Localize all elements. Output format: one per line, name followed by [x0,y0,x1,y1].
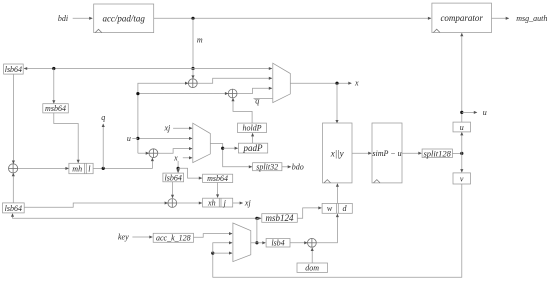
block dom [297,263,328,273]
svg-text:v: v [460,174,464,183]
block mh||l [69,163,93,173]
block v [453,173,471,184]
svg-text:acc_k_128: acc_k_128 [156,234,191,243]
wire acc_k_128 output to mux M3 input 1 [194,234,233,238]
wire msb64 down to xh||j [217,183,219,198]
svg-text:x: x [173,153,178,162]
wire mux M3 output [251,242,257,244]
node m distribution junction [191,67,194,70]
wire u box up to comparator [461,33,463,122]
block msb124 [262,213,298,223]
xor X2 [228,89,237,98]
wire xor X5 output to mh||l [18,167,69,169]
xor X6 [308,238,317,247]
svg-text:simP − u: simP − u [372,149,401,158]
node junction feedback [211,252,214,255]
register acc/pad/tag [94,4,154,33]
xor X4 [168,199,177,208]
wire xor X3 output to mux M2 input 3 [158,149,192,154]
xor X5 [9,164,18,173]
svg-text:u: u [483,108,487,117]
wire m to mux M1 input 1 [193,68,272,70]
svg-text:split32: split32 [256,163,278,172]
svg-text:x: x [354,79,359,88]
register comparator [432,3,492,32]
wire xj stub into mux M2 input 1 [173,127,192,129]
svg-text:msb64: msb64 [45,104,66,113]
wire bdi input arrow [73,17,93,19]
block u [453,122,471,132]
svg-text:u: u [460,123,464,132]
svg-text:xh: xh [207,199,216,208]
wire feedback rail to lsb64 bottom [13,214,257,219]
block lsb4 [266,239,290,248]
wire msb124 output to w||d [297,208,321,218]
wire m to lsb64 (left) [24,68,193,70]
svg-text:u: u [127,134,131,143]
svg-text:w: w [327,204,333,213]
svg-text:xj: xj [164,124,172,133]
wire up into u box [461,132,463,153]
svg-text:bdo: bdo [292,162,304,171]
svg-text:lsb64: lsb64 [5,65,22,74]
wire split128 output to u/v column [452,152,461,154]
wire holdP output to xor X2 bottom [233,98,252,123]
wire msb64 output to mh||l top [54,113,78,163]
wire mux M2 output to padP and split32 [210,144,252,167]
wire into padP [223,147,238,149]
wire msg_auth output arrow [492,17,509,19]
wire x down into register x||y [336,83,338,123]
wire xor X6 output up to w||d bottom [316,214,337,243]
svg-text:x||y: x||y [330,148,344,158]
svg-text:mh: mh [72,164,82,173]
wire xor X4 output to xh||j [177,202,202,204]
wire xor X2 output to mux M1 input 3 [237,88,272,93]
svg-text:padP: padP [243,143,264,153]
register x||y [323,123,353,183]
block holdP [238,123,267,133]
node junction u output [460,111,463,114]
mux M1 [273,63,291,102]
register simP-u [372,123,402,183]
node u junction 2 [136,137,139,140]
svg-text:comparator: comparator [440,13,483,23]
wire feedback into mux M3 input 2 [213,243,232,253]
node junction x [335,82,338,85]
block lsb64 (middle) [163,173,184,182]
wire x feed into lsb64 top [177,168,179,172]
wire u branch to xor X3 [138,152,149,154]
svg-text:msg_auth: msg_auth [516,14,547,23]
wire mux M1 output to x label [290,82,351,84]
wire m down to xor X1 [192,69,194,79]
wire u output arrow [462,111,477,113]
wire junction down to msb64 [53,69,55,104]
node junction q on mh||l output [102,167,105,170]
wire u distribution vertical with top branch to xor X1 [138,83,188,153]
svg-text:lsb64: lsb64 [165,173,182,182]
node junction x feed [177,167,180,170]
svg-text:q: q [255,97,259,106]
wire feedback into mux M3 input 3 [213,252,232,254]
node junction padP feed [221,147,224,150]
block lsb64 (bottom left) [3,203,25,213]
svg-text:lsb64: lsb64 [5,204,22,213]
mux M2 [193,123,211,162]
wire padP up to holdP [252,133,254,143]
svg-text:acc/pad/tag: acc/pad/tag [102,13,145,23]
wire register x||y output to simP-u [352,152,371,154]
block xh||j [203,198,233,207]
svg-text:msb124: msb124 [265,213,294,223]
svg-text:xj: xj [244,199,252,208]
wire lsb64 (bottom-left) output to xor X4 [24,203,167,207]
block msb64 (left) [43,104,69,114]
wire mh||l output to xor X3 bottom [93,158,152,168]
wire down into v box [461,153,463,172]
wire simP-u output to split128 [402,152,421,154]
svg-text:msb64: msb64 [207,174,228,183]
wire x feed into msb64 left [178,168,202,178]
svg-text:dom: dom [305,264,319,273]
svg-text:q: q [101,113,105,122]
wire v box feedback to mux M3 [213,184,462,277]
wire lsb4 output to xor X6 [290,242,307,244]
svg-text:lsb4: lsb4 [271,239,284,248]
wire u branch to xor X2 [138,93,228,95]
node junction split128 [460,152,463,155]
wire into msb124 [257,217,261,219]
wire lsb64 output down to xor X5 [12,74,14,163]
node junction to msb64 [52,67,55,70]
block lsb64 (top left) [4,64,24,74]
wire xh||j output to xj label [233,202,243,204]
svg-text:key: key [118,233,129,242]
wire lsb64 down to xor X4 [172,182,174,198]
node junction msb124 feed [255,217,258,220]
svg-text:split128: split128 [423,148,451,158]
wire q output arrow up [102,124,104,168]
wire x branch down to lsb64/msb64 [177,161,179,168]
wire x stub into mux M2 input 4 [183,157,192,159]
wire acc/pad/tag output to comparator [154,17,431,19]
mux M3 [233,223,251,262]
xor X1 [188,79,197,88]
wire xor X1 output to mux M1 input 2 [197,78,272,83]
block split32 [253,163,282,172]
wire qbar stub to mux M1 input 4 [254,97,273,99]
wire into lsb4 [257,242,265,244]
block acc_k_128 [153,233,193,242]
wire m vertical [192,18,194,68]
wire w||d up to register x||y bottom [336,184,338,204]
xor X3 [149,149,158,158]
node junction lsb4 feed [255,241,258,244]
block split128 [422,148,452,158]
svg-text:m: m [197,36,203,45]
wire key input arrow [132,236,152,238]
svg-text:holdP: holdP [242,124,261,133]
node m junction on acc output [191,17,194,20]
wire u branch to mux M2 input 2 [138,137,192,139]
wire vertical link lsb4 net up to msb124 net [256,218,258,243]
wire dom up to xor X6 [311,248,313,263]
block padP [238,143,267,153]
node u junction 1 [136,92,139,95]
block msb64 (middle) [203,174,233,183]
wire split32 output to bdo [282,166,291,168]
svg-text:bdi: bdi [58,14,68,23]
wire lsb64 (bottom) up to xor X5 [12,173,14,203]
block w||d [322,203,352,213]
